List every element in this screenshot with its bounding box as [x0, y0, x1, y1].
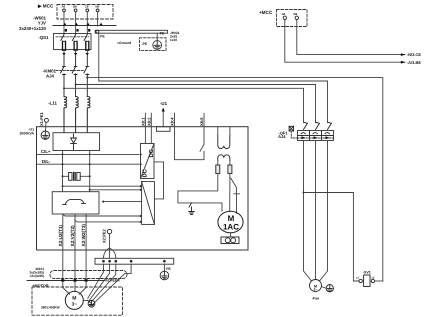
- svg-text:-L11: -L11: [48, 101, 57, 106]
- svg-text:AJ4: AJ4: [46, 74, 55, 79]
- svg-text:X8:4: X8:4: [170, 117, 175, 126]
- svg-text:380V,400KW: 380V,400KW: [41, 306, 60, 310]
- svg-text:X2:V2(T2): X2:V2(T2): [70, 225, 75, 247]
- svg-text:N8: N8: [95, 5, 99, 9]
- svg-text:=Ground: =Ground: [117, 41, 131, 45]
- svg-text:X8:5: X8:5: [199, 117, 204, 126]
- svg-text:X2:W2(T3): X2:W2(T3): [81, 224, 86, 247]
- svg-text:X1:PE1: X1:PE1: [39, 111, 44, 126]
- svg-text:+2x(3x95): +2x(3x95): [29, 274, 44, 278]
- svg-text:3x240+1x120: 3x240+1x120: [19, 26, 47, 31]
- svg-text:-SV1: -SV1: [363, 271, 371, 275]
- svg-text:▶ MCC: ▶ MCC: [37, 4, 54, 9]
- svg-text:PE: PE: [166, 267, 171, 271]
- svg-text:SCREEN: SCREEN: [106, 278, 121, 282]
- svg-text:AJ4: AJ4: [278, 134, 286, 139]
- svg-text:D/L-: D/L-: [42, 159, 51, 164]
- svg-text:-QS1: -QS1: [38, 35, 49, 40]
- svg-text:DC: DC: [148, 148, 155, 157]
- svg-text:1x10: 1x10: [170, 38, 177, 42]
- svg-text:-Fan: -Fan: [312, 297, 320, 301]
- svg-text:3~: 3~: [72, 301, 78, 306]
- svg-text:PE: PE: [100, 35, 105, 39]
- svg-text:A8: A8: [282, 12, 286, 16]
- svg-text:-PE: -PE: [142, 42, 148, 46]
- svg-text:-U1: -U1: [160, 101, 168, 106]
- svg-text:C8: C8: [85, 5, 89, 9]
- svg-text:X8:1: X8:1: [141, 117, 146, 126]
- svg-text:2000KVA: 2000KVA: [20, 132, 35, 136]
- svg-text:X2:U2(T1): X2:U2(T1): [58, 225, 63, 247]
- svg-text:DC: DC: [141, 168, 148, 177]
- svg-text:X2:PE2: X2:PE2: [101, 228, 106, 243]
- svg-text:+MCC: +MCC: [259, 10, 273, 15]
- svg-text:B8: B8: [73, 5, 77, 9]
- svg-text:B8: B8: [294, 12, 298, 16]
- svg-text:-A/3.B8: -A/3.B8: [407, 60, 422, 65]
- svg-text:C/L+: C/L+: [41, 149, 51, 154]
- svg-text:PE: PE: [160, 31, 165, 35]
- svg-text:YJV: YJV: [38, 20, 46, 25]
- svg-text:1AC: 1AC: [223, 222, 239, 231]
- svg-text:3~: 3~: [314, 288, 318, 292]
- svg-text:+MOTOR: +MOTOR: [32, 284, 49, 288]
- svg-text:A8: A8: [62, 5, 66, 9]
- svg-text:X8:2: X8:2: [146, 117, 151, 126]
- svg-text:-N/3.C8: -N/3.C8: [407, 52, 422, 57]
